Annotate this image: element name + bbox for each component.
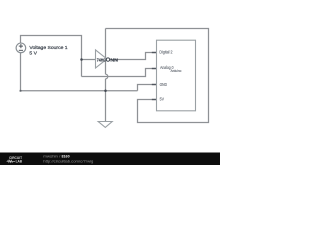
CircuitLab logo resistor squiggle: [7, 160, 16, 162]
svg-text:mwshin /: mwshin /: [43, 154, 60, 158]
terminal tick 5V: [152, 99, 157, 100]
junction dot input node: [80, 58, 83, 61]
voltage source plus sign: [19, 44, 23, 50]
ground symbol: [98, 122, 112, 128]
svg-text:http://circuitlab.com/c/7rwig: http://circuitlab.com/c/7rwig: [43, 159, 93, 163]
junction dot ground/VS-: [104, 90, 107, 93]
svg-text:NN: NN: [110, 57, 118, 62]
wire VS+ top: from voltage source top up and right, down to input node: [21, 36, 82, 77]
svg-text:5V: 5V: [160, 97, 165, 102]
wire 5V pin loop: left, down, right, up, left along top: [106, 29, 209, 123]
wire ground vertical lower: [105, 79, 107, 122]
buffer/inverter triangle 74HC: [96, 50, 107, 68]
wire VS- bottom: down, right to x137: [21, 53, 138, 91]
svg-text:5 V: 5 V: [29, 51, 37, 56]
wire input node to Analog 0 (under triangle): [82, 69, 157, 77]
svg-text:LAB: LAB: [16, 159, 23, 163]
wire ground vertical upper: [105, 29, 107, 75]
terminal tick Digital 2: [152, 52, 157, 53]
wire buffer input branch: [82, 59, 96, 61]
svg-text:74HC: 74HC: [97, 57, 107, 62]
svg-text:Digital 2: Digital 2: [159, 49, 173, 54]
wire GND pin to VS- wire: [138, 85, 157, 91]
svg-text:Arduino: Arduino: [171, 69, 182, 73]
svg-text:GND: GND: [160, 82, 167, 87]
wire hop arc on vertical over horizontal: [106, 74, 108, 79]
voltage source minus sign: [19, 49, 23, 51]
terminal tick GND: [152, 84, 157, 85]
watermark bar: [0, 153, 220, 166]
svg-text:Voltage Source 1: Voltage Source 1: [29, 45, 68, 50]
inverter bubble: [106, 58, 109, 61]
wire buffer output to Digital 2: [110, 53, 157, 60]
corner cap VS-: [20, 90, 22, 92]
voltage source V1 circle: [16, 43, 26, 53]
svg-text:8160: 8160: [62, 154, 70, 158]
Arduino box: [157, 40, 196, 111]
terminal tick Analog 0: [152, 68, 157, 69]
